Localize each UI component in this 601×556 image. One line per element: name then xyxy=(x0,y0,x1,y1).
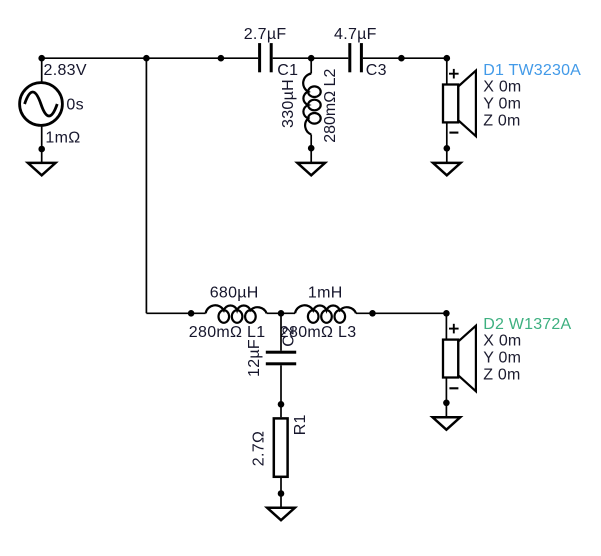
capacitor C3 plates xyxy=(348,43,351,72)
speaker D1 rectangle xyxy=(443,85,458,123)
wire C2 top stub xyxy=(280,313,282,350)
svg-text:0s: 0s xyxy=(66,96,84,113)
svg-text:330µH: 330µH xyxy=(280,79,297,128)
inductor L1 coil xyxy=(206,305,267,323)
speaker D1 minus xyxy=(449,132,458,134)
wire source top stub xyxy=(41,58,43,83)
wire top rail segment C1 to C3 xyxy=(273,57,349,59)
svg-text:280mΩ L2: 280mΩ L2 xyxy=(322,68,339,142)
node dot R1 bottom xyxy=(278,490,285,497)
speaker D1 horn xyxy=(458,71,476,137)
node dot C2 tap xyxy=(278,310,285,317)
wire L2 top stub xyxy=(310,58,312,73)
node dot above R1 xyxy=(278,401,285,408)
wire bottom rail left xyxy=(146,312,205,314)
wire top rail segment C3 to corner xyxy=(363,57,447,59)
svg-text:680µH: 680µH xyxy=(210,285,259,302)
speaker D2 rectangle xyxy=(443,340,458,378)
node dot wire end before C1 xyxy=(218,55,225,62)
node dot bottom rail right end xyxy=(369,310,376,317)
svg-text:Z 0m: Z 0m xyxy=(483,112,520,129)
wire between L1 and L3 xyxy=(267,312,295,314)
svg-text:2.7µF: 2.7µF xyxy=(244,26,287,43)
resistor R1 body xyxy=(274,418,288,476)
svg-text:Y 0m: Y 0m xyxy=(483,96,521,113)
svg-text:D2 W1372A: D2 W1372A xyxy=(483,316,571,333)
svg-text:C2: C2 xyxy=(281,326,298,347)
speaker D2 plus xyxy=(449,328,459,330)
svg-text:Z 0m: Z 0m xyxy=(483,366,520,383)
wire D2 bottom stub xyxy=(445,378,447,418)
node dot D2 bottom xyxy=(443,400,450,407)
svg-text:X 0m: X 0m xyxy=(483,333,521,350)
svg-text:C1: C1 xyxy=(277,62,298,79)
svg-text:1mΩ: 1mΩ xyxy=(45,130,80,147)
node dot source top xyxy=(38,55,45,62)
wire C2 to R1 xyxy=(280,365,282,417)
svg-text:C3: C3 xyxy=(366,62,387,79)
svg-text:2.83V: 2.83V xyxy=(44,62,87,79)
svg-text:Y 0m: Y 0m xyxy=(483,350,521,367)
speaker D2 horn xyxy=(458,326,476,392)
node dot top right corner xyxy=(444,55,451,62)
wire R1 bottom stub xyxy=(280,477,282,508)
wire top rail segment source to C1 xyxy=(42,57,258,59)
svg-text:12µF: 12µF xyxy=(246,339,263,377)
node dot D1 bottom xyxy=(444,145,451,152)
wire D1 top stub xyxy=(446,58,448,84)
capacitor C2 plates xyxy=(266,351,296,354)
ground D1 xyxy=(433,163,461,175)
svg-text:D1 TW3230A: D1 TW3230A xyxy=(483,62,581,79)
node dot wire end after C3 xyxy=(398,55,405,62)
ground D2 xyxy=(433,417,461,429)
wire D1 bottom stub xyxy=(446,122,448,162)
svg-text:4.7µF: 4.7µF xyxy=(334,26,377,43)
inductor L2 coil xyxy=(303,74,321,135)
svg-text:R1: R1 xyxy=(292,414,309,435)
svg-text:1mH: 1mH xyxy=(308,285,343,302)
speaker D1 plus xyxy=(449,73,459,75)
node dot L2 bottom xyxy=(308,145,315,152)
wire L2 bottom stub xyxy=(310,135,312,163)
ground source xyxy=(28,163,56,175)
node dot L2 tap xyxy=(308,55,315,62)
speaker D2 minus xyxy=(449,387,458,389)
wire L3 to corner xyxy=(356,312,446,314)
wire D2 top stub xyxy=(445,313,447,339)
node dot bottom right corner xyxy=(443,310,450,317)
node dot T junction xyxy=(143,55,150,62)
capacitor C1 plates xyxy=(258,43,261,72)
inductor L3 coil xyxy=(295,305,356,323)
ground L2 xyxy=(297,163,325,175)
voltage source V1 circle xyxy=(20,83,63,126)
svg-text:X 0m: X 0m xyxy=(483,79,521,96)
wire left vertical drop xyxy=(145,58,147,313)
voltage source sine wave xyxy=(25,92,58,116)
node dot source bottom xyxy=(38,146,45,153)
svg-text:280mΩ L1: 280mΩ L1 xyxy=(189,324,266,341)
node dot bottom rail left end xyxy=(188,310,195,317)
ground R1 xyxy=(267,508,295,520)
wire source bottom stub xyxy=(41,126,43,163)
svg-text:2.7Ω: 2.7Ω xyxy=(251,431,268,466)
